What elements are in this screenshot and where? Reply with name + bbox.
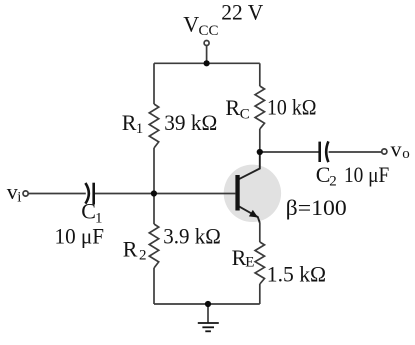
svg-text:10 μF: 10 μF bbox=[344, 162, 389, 187]
svg-text:3.9 kΩ: 3.9 kΩ bbox=[163, 224, 221, 249]
svg-text:R: R bbox=[225, 95, 240, 120]
svg-text:2: 2 bbox=[139, 248, 147, 264]
svg-text:C: C bbox=[240, 106, 250, 122]
svg-text:C: C bbox=[316, 162, 331, 187]
svg-text:1.5 kΩ: 1.5 kΩ bbox=[267, 261, 326, 286]
svg-text:10 kΩ: 10 kΩ bbox=[267, 95, 317, 120]
svg-text:o: o bbox=[402, 146, 410, 162]
svg-text:39 kΩ: 39 kΩ bbox=[164, 110, 217, 135]
svg-text:R: R bbox=[122, 110, 137, 135]
svg-text:V: V bbox=[183, 12, 199, 37]
svg-text:β=100: β=100 bbox=[286, 195, 347, 220]
svg-text:10 μF: 10 μF bbox=[55, 223, 105, 248]
svg-text:1: 1 bbox=[136, 121, 144, 137]
svg-text:v: v bbox=[7, 179, 18, 204]
svg-text:22 V: 22 V bbox=[221, 0, 263, 24]
svg-text:2: 2 bbox=[329, 174, 337, 190]
svg-text:v: v bbox=[391, 136, 402, 161]
svg-text:CC: CC bbox=[199, 23, 219, 39]
svg-text:R: R bbox=[123, 237, 138, 262]
svg-text:E: E bbox=[245, 254, 254, 270]
svg-text:C: C bbox=[81, 199, 96, 224]
svg-text:i: i bbox=[17, 190, 21, 206]
svg-text:1: 1 bbox=[95, 210, 103, 226]
